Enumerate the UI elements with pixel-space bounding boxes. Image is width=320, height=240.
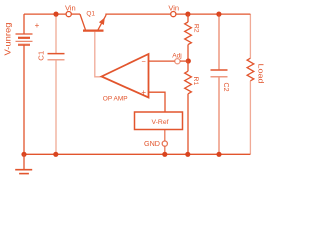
V-Ref block U2	[135, 112, 183, 130]
wire Adj circle to junction	[180, 60, 188, 62]
wire V-Ref bottom to GND node	[164, 130, 166, 141]
battery V-unreg	[16, 14, 33, 154]
op-amp U1	[102, 54, 149, 98]
transistor Q1 (NPN pass transistor)	[80, 14, 106, 31]
wire op-amp non-inverting input to V-Ref	[149, 92, 166, 112]
junction dot battery/C1 top	[53, 12, 58, 17]
resistor R2	[185, 14, 192, 61]
svg-text:Q1: Q1	[86, 11, 95, 18]
svg-text:Vin: Vin	[168, 3, 179, 12]
junction dot R2 top	[185, 12, 190, 17]
svg-text:V-unreg: V-unreg	[3, 23, 12, 56]
junction dot C1 bottom	[53, 152, 58, 157]
svg-text:Adj: Adj	[172, 53, 182, 60]
junction dot battery bottom / ground	[21, 152, 26, 157]
svg-text:R2: R2	[193, 24, 200, 33]
svg-text:Vin: Vin	[65, 3, 76, 12]
ground	[15, 154, 32, 173]
collector slope	[80, 14, 85, 30]
capacitor C1	[48, 14, 65, 154]
node Vin (input, open circle)	[66, 12, 71, 17]
svg-text:Load: Load	[256, 64, 265, 84]
junction dot R1 bottom	[185, 152, 190, 157]
svg-text:C2: C2	[222, 83, 229, 92]
junction dot C2 bottom	[216, 152, 221, 157]
resistor Load	[247, 14, 254, 154]
svg-text:OP AMP: OP AMP	[103, 96, 128, 103]
wire top-left rail from battery to Vin node	[24, 13, 66, 15]
wire output rail right to load corner	[176, 13, 251, 15]
base bar	[83, 30, 104, 32]
capacitor C2	[211, 14, 228, 154]
svg-text:C1: C1	[37, 51, 46, 61]
node GND (open circle)	[162, 141, 167, 146]
wire load branch bottom corner and bottom rail	[24, 153, 250, 155]
junction dot C2 top	[216, 12, 221, 17]
svg-text:−: −	[142, 57, 147, 66]
wire Q1 emitter to output rail	[106, 14, 171, 15]
wire from Vin node to Q1 collector	[71, 13, 80, 15]
svg-text:V-Ref: V-Ref	[152, 119, 169, 126]
emitter slope	[98, 15, 106, 30]
junction dot Adj	[186, 58, 191, 63]
svg-text:+: +	[35, 21, 40, 30]
svg-text:GND: GND	[144, 139, 160, 148]
wire op-amp output to Q1 base	[95, 32, 102, 77]
wire op-amp inverting input to Adj	[149, 60, 175, 62]
svg-text:R1: R1	[192, 77, 199, 86]
wire GND node to bottom rail	[164, 146, 166, 154]
emitter arrowhead	[99, 18, 105, 26]
junction dot GND stub bottom	[162, 152, 167, 157]
svg-text:+: +	[141, 88, 146, 97]
node Adj (open circle)	[175, 59, 180, 64]
resistor R1	[185, 61, 192, 154]
node Vin (output node open circle)	[171, 12, 176, 17]
